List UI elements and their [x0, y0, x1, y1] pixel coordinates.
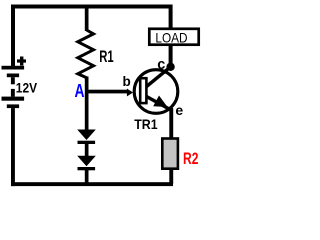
wire base horizontal: [86, 90, 128, 94]
transistor TR1 collector lead: [147, 67, 171, 87]
battery B1 plate 3 long: [2, 97, 25, 101]
transistor TR1 base arrow: [127, 89, 133, 97]
svg-text:A: A: [75, 81, 85, 101]
wire below diode D2: [85, 170, 89, 185]
junction dot at c: [166, 63, 174, 71]
battery B1 plate 1 long: [2, 66, 25, 70]
battery B1 stub above plate 3: [11, 89, 15, 97]
wire middle vertical mid (node A junction): [85, 77, 89, 131]
svg-text:c: c: [157, 57, 165, 73]
svg-text:R2: R2: [183, 150, 198, 168]
wire between diodes: [85, 143, 89, 157]
wire left vertical (battery bottom): [11, 108, 15, 186]
svg-text:e: e: [175, 102, 183, 118]
wire emitter vertical to R2: [169, 108, 173, 138]
transistor TR1 emitter arrow: [153, 96, 167, 108]
svg-text:12V: 12V: [16, 80, 38, 96]
wire bottom rail: [11, 182, 173, 186]
resistor R1 zigzag: [78, 30, 94, 78]
wire below R2 to bottom rail: [169, 170, 173, 184]
transistor TR1 circle: [134, 70, 178, 114]
LOAD box: [149, 29, 198, 45]
wire middle vertical top: [85, 5, 89, 32]
wire right vertical below LOAD to collector: [169, 46, 173, 68]
resistor R2 box: [162, 139, 178, 169]
svg-text:R1: R1: [99, 48, 113, 66]
battery B1 plus sign: [17, 57, 26, 66]
diode D1: [77, 130, 96, 141]
transistor TR1 base bar: [140, 78, 146, 103]
wire top rail: [11, 5, 173, 9]
battery B1 plate 2 short: [7, 74, 19, 78]
battery B1 stub below plate 2: [11, 77, 15, 84]
svg-text:b: b: [123, 74, 131, 89]
svg-text:LOAD: LOAD: [155, 30, 187, 46]
transistor TR1 emitter lead: [147, 97, 172, 111]
diode D2: [77, 156, 96, 167]
battery B1 plate 4 short: [7, 104, 19, 108]
svg-text:TR1: TR1: [134, 116, 158, 132]
wire left vertical (battery top): [11, 5, 15, 67]
wire right vertical above LOAD: [169, 5, 173, 29]
